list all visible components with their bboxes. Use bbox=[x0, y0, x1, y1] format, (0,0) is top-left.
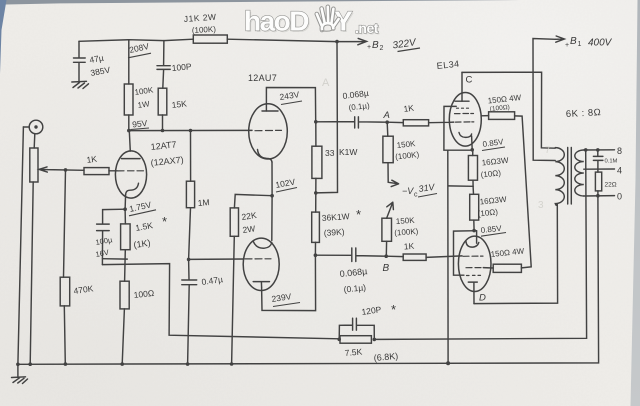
potentiometer (volume) bbox=[30, 148, 38, 182]
tube V2b 12AU7 bbox=[243, 238, 279, 290]
wire: jack to pot bbox=[33, 134, 36, 148]
svg-text:22K: 22K bbox=[241, 210, 258, 222]
wire: 95V node line bbox=[129, 129, 252, 131]
wire: tap 8 bbox=[584, 149, 615, 151]
wire: tap 0 bbox=[584, 195, 615, 197]
svg-text:1M: 1M bbox=[197, 197, 210, 208]
capacitor 0.068u A bbox=[316, 117, 387, 128]
capacitor 47u 385V bbox=[74, 41, 86, 81]
node wiper/470K junction bbox=[64, 168, 68, 172]
svg-text:1K: 1K bbox=[403, 103, 415, 114]
wire: D cathode lead bbox=[476, 231, 478, 243]
wire: cathode link bbox=[103, 258, 128, 260]
wire: grid line V2b bbox=[189, 258, 244, 260]
resistor J1K 2W (100K) bbox=[193, 35, 227, 43]
wire: rail to B2 junction bbox=[227, 39, 337, 41]
wire: B1 supply bbox=[533, 39, 556, 161]
node V1 cathode bbox=[123, 207, 127, 211]
wire: C plate lead bbox=[461, 72, 463, 101]
resistor 22K 2W bbox=[230, 208, 238, 236]
svg-text:7: 7 bbox=[545, 145, 550, 155]
svg-text:0: 0 bbox=[617, 192, 622, 202]
svg-text:0.1M: 0.1M bbox=[605, 159, 618, 165]
wire: B2 feed column bbox=[316, 42, 338, 193]
svg-text:D: D bbox=[479, 293, 486, 304]
node A-side plate junction bbox=[314, 120, 318, 124]
wire: D plate to transformer bbox=[474, 205, 558, 304]
svg-text:36K1W: 36K1W bbox=[321, 211, 350, 223]
tube C EL34 bbox=[449, 93, 481, 147]
wire: feedback from 8ohm tap bbox=[374, 150, 586, 340]
svg-text:100Ω: 100Ω bbox=[133, 288, 154, 300]
node ground rail junctions bbox=[16, 363, 20, 367]
wire: feedback from cathode bbox=[102, 264, 339, 339]
transformer secondary bbox=[575, 150, 584, 196]
svg-text:1: 1 bbox=[578, 41, 582, 48]
capacitor 100u 16V bbox=[97, 209, 126, 264]
svg-text:*: * bbox=[356, 207, 361, 222]
wire: 1M column bbox=[190, 131, 192, 182]
node A bbox=[385, 120, 389, 124]
tube V2a 12AU7 bbox=[249, 104, 288, 159]
svg-text:+: + bbox=[565, 42, 569, 49]
node taps bbox=[584, 148, 588, 152]
wire: tap 4 bbox=[584, 168, 615, 170]
wire: V1 plate lead bbox=[129, 131, 130, 152]
wiper arrow bbox=[39, 167, 84, 172]
capacitor 0.068u B bbox=[315, 248, 386, 262]
svg-text:K1W: K1W bbox=[339, 147, 357, 157]
svg-text:100P: 100P bbox=[171, 61, 192, 73]
node 33K/36K junction bbox=[314, 191, 318, 195]
capacitor 120P feedback bbox=[339, 318, 374, 339]
node D cathode bbox=[472, 229, 476, 233]
wire: cathode midpoint link bbox=[448, 185, 473, 187]
svg-text:haoD: haoD bbox=[244, 6, 309, 37]
svg-text:.net: .net bbox=[355, 20, 379, 36]
resistor 1K grid stopper bbox=[84, 168, 109, 175]
resistor 16ohm 3W (10) C bbox=[468, 156, 477, 181]
svg-text:*: * bbox=[391, 302, 396, 317]
wire: B2 arrow bbox=[337, 38, 367, 44]
node B2 junction bbox=[335, 40, 339, 44]
wire: ground return / bottom rail bbox=[18, 196, 599, 365]
svg-text:*: * bbox=[162, 214, 167, 229]
svg-text:(6.8K): (6.8K) bbox=[373, 351, 398, 363]
svg-text:33: 33 bbox=[325, 148, 335, 158]
svg-text:7.5K: 7.5K bbox=[344, 346, 363, 358]
resistor 150K (100K) B-side bbox=[382, 218, 392, 241]
wire: C plate top line bbox=[462, 72, 555, 148]
resistor 16ohm 3W (10) D bbox=[472, 186, 474, 194]
node V2b grid junction bbox=[187, 258, 191, 262]
capacitor 0.1u zobel bbox=[593, 150, 603, 172]
svg-text:−V: −V bbox=[402, 186, 414, 196]
capacitor 100P bbox=[157, 41, 170, 89]
ground (filter cap) bbox=[72, 81, 89, 88]
wire: -Vc arrow B-side bbox=[387, 202, 394, 218]
resistor 33K 1W bbox=[315, 122, 317, 146]
tube V1 12AT7 bbox=[115, 151, 146, 198]
watermark: haoDIY.net logo bbox=[244, 6, 380, 39]
svg-text:B: B bbox=[383, 263, 390, 274]
wire: V2a plate to 243V line bbox=[266, 88, 315, 122]
node 95V junctions bbox=[127, 129, 131, 133]
svg-text:15K: 15K bbox=[171, 98, 187, 110]
wire: cathode to V2b bbox=[271, 196, 273, 241]
resistor 1.5K (1K) cathode bbox=[124, 209, 126, 224]
resistor 7.5K (6.8K) feedback bbox=[340, 336, 371, 344]
resistor 100K 1W bbox=[128, 40, 130, 84]
svg-text:2: 2 bbox=[380, 45, 384, 52]
resistor 100ohm bbox=[120, 281, 129, 309]
node B-side junction bbox=[314, 253, 318, 257]
node common cathode bbox=[270, 194, 274, 198]
wire: V2a cathode down bbox=[271, 162, 273, 196]
svg-text:8: 8 bbox=[617, 146, 622, 156]
resistor 15K bbox=[158, 88, 167, 115]
svg-text:(100K): (100K) bbox=[192, 25, 217, 35]
resistor 150K (100K) A-side bbox=[386, 122, 389, 136]
svg-text:2W: 2W bbox=[242, 223, 256, 235]
svg-text:22Ω: 22Ω bbox=[605, 182, 617, 189]
svg-text:150K: 150K bbox=[396, 216, 416, 226]
svg-text:1K: 1K bbox=[86, 154, 98, 165]
svg-text:1K: 1K bbox=[403, 241, 414, 252]
wire: V1 cathode lead bbox=[124, 195, 127, 210]
node B bbox=[384, 254, 388, 258]
wire: cathode ground column bbox=[447, 150, 449, 363]
capacitor 0.47u bbox=[182, 259, 197, 364]
svg-text:C: C bbox=[466, 75, 473, 86]
wire: screen column bbox=[515, 116, 532, 268]
svg-text:1W: 1W bbox=[137, 99, 151, 110]
wire: D grid box bbox=[454, 231, 477, 276]
input jack bbox=[29, 120, 43, 134]
resistor 1K (B to D grid) bbox=[386, 255, 403, 257]
svg-text:6K : 8Ω: 6K : 8Ω bbox=[566, 107, 602, 120]
svg-text:c: c bbox=[414, 192, 418, 199]
transformer core bbox=[568, 148, 572, 205]
resistor 1M bbox=[186, 181, 194, 208]
node C cathode bbox=[470, 148, 474, 152]
wire: -Vc arrow A-side bbox=[388, 180, 398, 186]
svg-text:(39K): (39K) bbox=[323, 227, 345, 238]
wire: input shield down bbox=[18, 127, 24, 364]
wire: top supply rail bbox=[79, 39, 193, 41]
tube D EL34 bbox=[458, 236, 491, 291]
svg-text:400V: 400V bbox=[588, 38, 613, 49]
svg-text:(100K): (100K) bbox=[394, 227, 419, 238]
resistor 150ohm 4W (100) C screen bbox=[481, 115, 488, 117]
ground (main) bbox=[12, 364, 28, 383]
resistor 1K (A to C grid) bbox=[387, 121, 403, 123]
resistor 22ohm zobel bbox=[595, 172, 601, 191]
transformer primary bbox=[555, 148, 564, 206]
hand glyph bbox=[317, 7, 339, 31]
svg-text:A: A bbox=[322, 77, 330, 89]
svg-text:4: 4 bbox=[617, 166, 622, 176]
svg-text:A: A bbox=[383, 110, 390, 121]
svg-text:B: B bbox=[570, 36, 577, 47]
wire: cathode to 22K bbox=[234, 194, 272, 208]
svg-text:+: + bbox=[367, 44, 371, 51]
resistor 36K 1W (39K) bbox=[315, 193, 317, 212]
wire: V2b plate to 36K bottom bbox=[262, 255, 316, 310]
resistor 470K bbox=[64, 170, 66, 277]
svg-text:12AU7: 12AU7 bbox=[248, 73, 277, 83]
svg-text:3: 3 bbox=[538, 200, 544, 211]
wire: C grid box bbox=[444, 106, 472, 150]
resistor 150ohm 4W (100) D screen bbox=[483, 267, 493, 269]
svg-text:B: B bbox=[372, 40, 379, 51]
